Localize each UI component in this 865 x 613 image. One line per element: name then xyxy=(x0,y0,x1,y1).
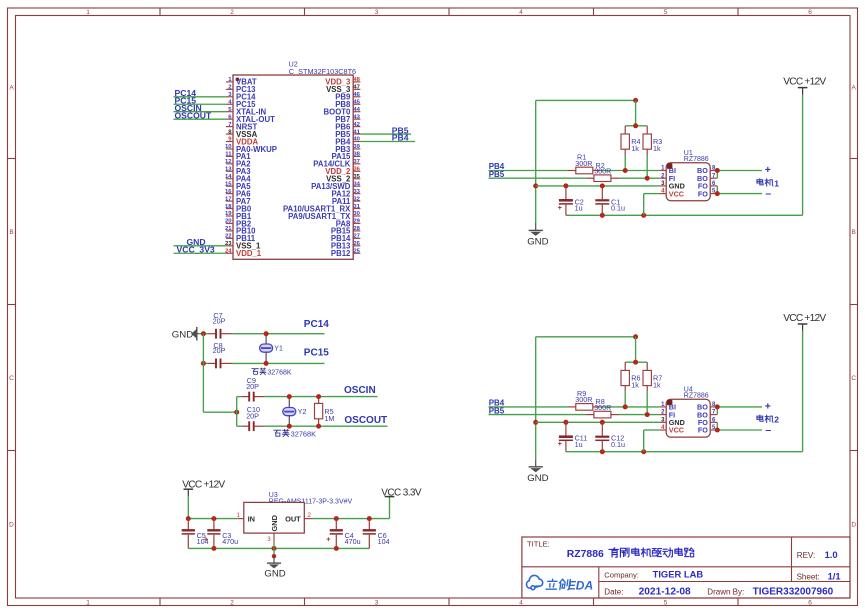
svg-text:4: 4 xyxy=(519,9,523,16)
wire OUT rail up to VCC 3.3V xyxy=(389,498,391,519)
wire bottom VCC rail xyxy=(566,451,803,453)
svg-text:6: 6 xyxy=(808,599,812,606)
svg-text:16: 16 xyxy=(225,189,232,195)
svg-text:38: 38 xyxy=(353,152,360,158)
capacitor C10 20P xyxy=(242,405,264,431)
svg-text:470u: 470u xyxy=(222,537,238,546)
node pullup bar xyxy=(633,123,638,128)
svg-text:TIGER LAB: TIGER LAB xyxy=(653,569,704,580)
svg-text:1u: 1u xyxy=(575,204,583,213)
svg-text:Sheet:: Sheet: xyxy=(797,572,820,581)
svg-text:34: 34 xyxy=(353,181,360,187)
U2 pin 18 PB0 xyxy=(225,204,252,214)
svg-text:PB5: PB5 xyxy=(489,406,505,415)
svg-text:18: 18 xyxy=(225,204,232,210)
wire VCC +12V down to bottom rail xyxy=(802,95,804,216)
svg-text:+: + xyxy=(326,535,331,544)
svg-text:19: 19 xyxy=(225,211,232,217)
svg-text:29: 29 xyxy=(353,219,360,225)
svg-text:41: 41 xyxy=(353,129,360,135)
svg-text:20P: 20P xyxy=(213,346,226,355)
wire net PB5 to R8 xyxy=(489,414,660,416)
wire GND vertical to lower crystal xyxy=(202,334,204,413)
U2 pin 10 PA0-WKUP xyxy=(225,144,277,154)
wire FO output to motor - xyxy=(717,422,762,430)
U1 pin 4 VCC xyxy=(659,189,684,199)
node Y2 bottom xyxy=(287,424,292,429)
wire net PC14 to U2 pin 3 xyxy=(174,96,226,98)
node FI pullup tap xyxy=(645,412,650,417)
U2 pin 30 PA9/USART1_TX xyxy=(288,211,361,221)
svg-text:35: 35 xyxy=(353,174,360,180)
U1 pin 3 GND xyxy=(659,181,684,191)
wire top rail xyxy=(536,336,636,338)
U2 pin 29 PA8 xyxy=(336,219,361,229)
U2 pin 35 VSS_2 xyxy=(326,174,361,184)
svg-text:22: 22 xyxy=(225,234,232,240)
svg-text:43: 43 xyxy=(353,114,360,120)
svg-text:1.0: 1.0 xyxy=(825,549,838,560)
U2 pin 41 PB5 xyxy=(335,129,360,139)
resistor R2 300R xyxy=(586,161,619,182)
svg-text:300R: 300R xyxy=(594,403,611,412)
U4 pin 6 FO xyxy=(698,417,717,427)
node top rail to pullups xyxy=(633,334,638,339)
svg-text:Y1: Y1 xyxy=(274,346,283,353)
svg-text:2: 2 xyxy=(774,415,779,425)
svg-text:B: B xyxy=(852,229,856,236)
wire net PC15 to U2 pin 4 xyxy=(174,103,226,105)
svg-text:–: – xyxy=(765,187,771,199)
U2 pin 48 VDD_3 xyxy=(325,77,360,87)
svg-text:A: A xyxy=(852,84,857,91)
wire left vertical to ground xyxy=(535,337,537,460)
node FI pullup tap xyxy=(645,176,650,181)
svg-text:1k: 1k xyxy=(653,144,661,153)
U3 pin 3 GND xyxy=(267,514,279,542)
svg-text:47: 47 xyxy=(353,85,360,91)
svg-text:3: 3 xyxy=(375,9,379,16)
svg-text:42: 42 xyxy=(353,122,360,128)
U1 pin 8 BO xyxy=(697,166,717,176)
svg-text:45: 45 xyxy=(353,99,360,105)
svg-text:20P: 20P xyxy=(246,411,259,420)
ground symbol GND (regulator) xyxy=(264,556,285,579)
svg-text:20P: 20P xyxy=(246,382,259,391)
capacitor C1 0.1u xyxy=(595,186,625,215)
svg-text:GND: GND xyxy=(270,514,279,531)
node Y1 bottom xyxy=(264,361,269,366)
U2 pin 39 PB3 xyxy=(335,144,360,154)
U2 pin 8 VSSA xyxy=(226,129,258,139)
svg-text:OSCIN: OSCIN xyxy=(344,385,376,396)
svg-text:44: 44 xyxy=(353,107,360,113)
ground symbol GND (motor 2) xyxy=(527,459,548,483)
U2 pin 46 PB9 xyxy=(335,92,360,102)
svg-text:32768K: 32768K xyxy=(267,369,291,376)
U1 pin 2 FI xyxy=(659,173,675,183)
wire left vertical to ground xyxy=(535,100,537,223)
U2 pin 1 VBAT xyxy=(226,77,257,87)
svg-text:D: D xyxy=(9,521,14,528)
node C4 tap xyxy=(334,516,339,521)
power flag VCC +12V (motor 2) xyxy=(783,313,826,331)
svg-text:1: 1 xyxy=(86,9,90,16)
svg-text:1k: 1k xyxy=(631,144,639,153)
wire FO output to motor - xyxy=(717,186,762,194)
svg-text:IN: IN xyxy=(248,514,255,523)
wire VCC rail up to U1 VCC pin xyxy=(644,194,660,216)
svg-text:39: 39 xyxy=(353,144,360,150)
U2 pin 20 PB2 xyxy=(225,219,252,229)
svg-text:27: 27 xyxy=(353,234,360,240)
EasyEDA logo cloud xyxy=(527,575,543,589)
svg-text:PB4: PB4 xyxy=(392,133,409,143)
svg-text:+: + xyxy=(558,439,563,448)
svg-text:32768K: 32768K xyxy=(291,429,317,438)
power flag VCC 3.3V xyxy=(381,487,422,498)
svg-text:GND: GND xyxy=(527,236,548,247)
svg-text:+: + xyxy=(558,203,563,212)
svg-text:VCC: VCC xyxy=(669,189,684,198)
svg-text:C: C xyxy=(9,375,14,382)
wire GND bottom rail (regulator) xyxy=(188,547,369,549)
U2 pin 38 PA15 xyxy=(331,152,360,162)
node FO pins tied xyxy=(715,191,720,196)
svg-text:A: A xyxy=(9,84,14,91)
svg-text:300R: 300R xyxy=(575,159,592,168)
IC U2 C_STM32F103C8T6 body xyxy=(233,75,353,259)
svg-text:VCC +12V: VCC +12V xyxy=(783,77,826,88)
wire BO output to motor + xyxy=(717,407,762,415)
svg-text:31: 31 xyxy=(353,204,360,210)
power flag VCC +12V (regulator) xyxy=(182,479,225,496)
svg-text:30: 30 xyxy=(353,211,360,217)
wire bracket vertical (OSCIN/OSCOUT) xyxy=(236,397,238,427)
U2 pin 37 PA14/CLK xyxy=(313,159,360,169)
svg-text:24: 24 xyxy=(225,248,232,254)
node C bottom rail junctions xyxy=(600,213,646,218)
wire net VCC_3V3 to U2 pin 24 xyxy=(174,252,226,254)
wire GND stub below rail xyxy=(273,548,275,554)
svg-text:28: 28 xyxy=(353,226,360,232)
svg-text:1: 1 xyxy=(86,599,90,606)
capacitor C7 20P xyxy=(208,311,232,338)
node C6 tap xyxy=(367,516,372,521)
svg-text:FO: FO xyxy=(698,426,708,435)
wire U3 GND pin to rail xyxy=(273,543,275,549)
svg-text:46: 46 xyxy=(353,92,360,98)
ground symbol GND (motor 1) xyxy=(527,223,548,247)
wire net OSCIN row (crystal) xyxy=(237,396,378,398)
svg-text:0.1u: 0.1u xyxy=(611,440,625,449)
svg-text:1: 1 xyxy=(237,512,241,519)
svg-text:VDD_1: VDD_1 xyxy=(236,249,262,258)
svg-text:GND: GND xyxy=(264,569,285,580)
svg-text:D: D xyxy=(851,521,856,528)
capacitor C5 104 xyxy=(182,519,209,549)
node BO pins tied xyxy=(715,168,720,173)
U2 pin 7 NRST xyxy=(226,122,258,132)
svg-text:6: 6 xyxy=(808,9,812,16)
U2 pin 43 PB7 xyxy=(335,114,360,124)
svg-text:300R: 300R xyxy=(594,167,611,176)
wire pullup bar xyxy=(625,337,647,362)
svg-text:OSCOUT: OSCOUT xyxy=(175,111,213,121)
crystal Y2 xyxy=(283,397,296,427)
capacitor C3 470u xyxy=(204,519,239,549)
capacitor C12 0.1u xyxy=(595,422,625,451)
svg-text:0.1u: 0.1u xyxy=(611,204,625,213)
svg-text:40: 40 xyxy=(353,137,360,143)
resistor R3 1k xyxy=(643,126,662,178)
U1 pin 1 BI xyxy=(659,166,676,176)
wire net PB5 to R2 xyxy=(489,177,660,179)
svg-text:RZ7886: RZ7886 xyxy=(567,549,604,560)
U2 pin 24 VDD_1 xyxy=(225,248,262,258)
svg-text:10: 10 xyxy=(225,144,232,150)
U2 pin 17 PA7 xyxy=(225,196,251,206)
U2 pin 25 PB12 xyxy=(331,248,361,258)
resistor R4 1k xyxy=(621,126,641,171)
U1 pin 7 BO xyxy=(697,173,717,183)
wire net PB4 from U2 pin 40 xyxy=(360,141,415,143)
U2 pin 15 PA5 xyxy=(225,181,251,191)
U4 pin 7 BO xyxy=(697,410,717,420)
Y2 value label quartz 32768K xyxy=(274,429,289,436)
U4 pin 3 GND xyxy=(659,417,684,427)
node GND symbol tap xyxy=(272,554,276,558)
wire net GND to U2 pin 23 xyxy=(174,245,226,247)
wire net OSCOUT to U2 pin 6 xyxy=(174,118,226,120)
node BI pullup tap xyxy=(623,404,628,409)
U2 pin 40 PB4 xyxy=(335,137,360,147)
IC U1 RZ7886 body xyxy=(666,163,710,201)
capacitor C4 470u xyxy=(326,519,361,549)
svg-text:1M: 1M xyxy=(324,414,334,423)
svg-text:PC14: PC14 xyxy=(304,319,329,330)
wire top rail xyxy=(536,99,636,101)
U2 pin 22 PB11 xyxy=(225,234,256,244)
wire GND line to U4 pin 3 xyxy=(536,421,660,423)
svg-text:Company:: Company: xyxy=(604,570,639,579)
svg-text:FO: FO xyxy=(698,189,708,198)
U2 pin 26 PB13 xyxy=(331,241,361,251)
svg-text:REV:: REV: xyxy=(797,551,815,560)
svg-text:1/1: 1/1 xyxy=(828,571,841,582)
U2 pin 11 PA1 xyxy=(225,152,251,162)
wire VCC +12V down to bottom rail xyxy=(802,331,804,452)
wire BO output to motor + xyxy=(717,171,762,179)
U4 pin 5 FO xyxy=(698,425,717,435)
crystal Y1 xyxy=(260,334,273,364)
node R5 bottom xyxy=(316,424,321,429)
node GND pin tap xyxy=(272,546,277,551)
svg-text:2: 2 xyxy=(308,512,312,519)
svg-text:TITLE:: TITLE: xyxy=(527,539,550,548)
U1 pin 5 FO xyxy=(698,189,717,199)
power flag VCC +12V (motor 1) xyxy=(783,77,826,95)
capacitor C2 1u xyxy=(558,186,584,215)
svg-text:1u: 1u xyxy=(575,440,583,449)
svg-text:33: 33 xyxy=(353,189,360,195)
svg-text:14: 14 xyxy=(225,174,232,180)
U2 pin 28 PB15 xyxy=(331,226,361,236)
svg-text:C: C xyxy=(851,375,856,382)
title block frame xyxy=(522,537,850,598)
U2 pin 5 XTAL-IN xyxy=(226,107,267,117)
svg-text:5: 5 xyxy=(664,599,668,606)
resistor R7 1k xyxy=(643,362,662,414)
resistor R1 300R xyxy=(568,152,601,173)
U2 pin 9 VDDA xyxy=(226,137,259,147)
svg-text:EDA: EDA xyxy=(568,578,593,592)
svg-text:300R: 300R xyxy=(575,395,592,404)
svg-text:–: – xyxy=(765,424,771,436)
svg-text:PC15: PC15 xyxy=(304,348,329,359)
U2 pin 2 PC13 xyxy=(226,85,256,95)
svg-text:B: B xyxy=(9,229,13,236)
svg-text:VCC_3V3: VCC_3V3 xyxy=(177,245,215,255)
U2 pin 16 PA6 xyxy=(225,189,251,199)
svg-text:25: 25 xyxy=(353,248,360,254)
svg-text:Date:: Date: xyxy=(604,587,623,596)
svg-text:15: 15 xyxy=(225,181,232,187)
node C4 bottom xyxy=(334,546,339,551)
label motor 1 (dianji1) xyxy=(757,179,773,187)
svg-text:37: 37 xyxy=(353,159,360,165)
svg-text:VCC: VCC xyxy=(669,426,684,435)
svg-text:1k: 1k xyxy=(653,380,661,389)
svg-text:20P: 20P xyxy=(213,317,226,326)
wire net OSCIN to U2 pin 5 xyxy=(174,111,226,113)
resistor R6 1k xyxy=(621,362,641,407)
svg-text:48: 48 xyxy=(353,77,360,83)
node decoupling taps on GND line xyxy=(563,420,604,425)
svg-text:RZ7886: RZ7886 xyxy=(684,156,709,163)
svg-text:5: 5 xyxy=(664,9,668,16)
U2 pin 13 PA3 xyxy=(225,167,251,177)
svg-text:36: 36 xyxy=(353,167,360,173)
node top rail to pullups xyxy=(633,98,638,103)
node Y1 top xyxy=(264,331,269,336)
svg-text:3: 3 xyxy=(375,599,379,606)
U4 pin 4 VCC xyxy=(659,425,684,435)
U2 pin 31 PA10/USART1_RX xyxy=(283,204,361,214)
svg-text:104: 104 xyxy=(378,537,390,546)
node GND branch on PC15 row xyxy=(201,361,206,366)
U2 pin 6 XTAL-OUT xyxy=(226,114,275,124)
svg-text:1: 1 xyxy=(774,178,779,188)
U2 pin 44 BOOT0 xyxy=(324,107,361,117)
svg-text:TIGER332007960: TIGER332007960 xyxy=(753,587,834,598)
svg-text:+: + xyxy=(765,400,771,412)
wire bottom VCC rail xyxy=(566,214,803,216)
svg-text:Drawn By:: Drawn By: xyxy=(707,587,744,596)
wire net PB4 to R1 xyxy=(489,170,660,172)
svg-text:2: 2 xyxy=(230,599,234,606)
U1 pin 6 FO xyxy=(698,181,717,191)
U2 pin 32 PA11 xyxy=(332,196,361,206)
IC U3 AMS1117 body xyxy=(244,502,304,533)
node BO pins tied xyxy=(715,404,720,409)
U4 pin 1 BI xyxy=(659,402,676,412)
U2 pin 14 PA4 xyxy=(225,174,251,184)
U2 pin 3 PC14 xyxy=(226,92,256,102)
svg-text:4: 4 xyxy=(519,599,523,606)
EasyEDA logo wordmark (lichuang EDA) xyxy=(546,579,570,590)
svg-text:21: 21 xyxy=(225,226,232,232)
resistor R8 300R xyxy=(586,397,619,418)
svg-text:+: + xyxy=(204,535,209,544)
node GND branch on PC14 row xyxy=(201,331,206,336)
U2 pin 21 PB10 xyxy=(225,226,256,236)
ground symbol GND (crystal section, rotated) xyxy=(172,327,199,341)
U2 pin 45 PB8 xyxy=(335,99,360,109)
svg-text:GND: GND xyxy=(172,329,193,340)
node GND line tap xyxy=(533,420,538,425)
wire net PC14 row (crystal) xyxy=(199,333,325,335)
svg-text:RZ7886: RZ7886 xyxy=(684,392,709,399)
node C5 tap xyxy=(186,516,191,521)
node GND line tap xyxy=(533,183,538,188)
label motor 2 (dianji2) xyxy=(757,415,773,423)
svg-text:470u: 470u xyxy=(345,537,361,546)
wire GND branch to bracket xyxy=(203,411,236,413)
U2 pin 4 PC15 xyxy=(226,99,256,109)
node C3 tap xyxy=(211,516,216,521)
wire OUT rail xyxy=(312,518,389,520)
node bracket junction xyxy=(234,410,239,415)
node BI pullup tap xyxy=(623,168,628,173)
node FO pins tied xyxy=(715,428,720,433)
wire net PC15 row (crystal) xyxy=(203,362,324,364)
U2 pin 34 PA13/SWD xyxy=(311,181,361,191)
U4 pin 2 FI xyxy=(659,410,675,420)
node C bottom rail junctions xyxy=(600,449,646,454)
wire IN rail xyxy=(188,518,237,520)
U3 pin 2 OUT xyxy=(285,512,312,523)
svg-text:2: 2 xyxy=(230,9,234,16)
svg-text:Y2: Y2 xyxy=(298,409,307,416)
svg-text:13: 13 xyxy=(225,167,232,173)
Y1 value label quartz 32768K xyxy=(252,368,266,375)
capacitor C9 20P xyxy=(242,376,264,402)
U2 pin 42 PB6 xyxy=(335,122,360,132)
svg-text:PB12: PB12 xyxy=(331,249,351,258)
svg-text:20: 20 xyxy=(225,219,232,225)
wire net PB5 from U2 pin 41 xyxy=(360,133,411,135)
capacitor C6 104 xyxy=(363,519,390,549)
svg-text:11: 11 xyxy=(225,152,232,158)
U2 pin 27 PB14 xyxy=(331,234,361,244)
node R5 top xyxy=(316,394,321,399)
svg-text:1k: 1k xyxy=(631,380,639,389)
wire pullup bar xyxy=(625,100,647,125)
svg-text:+: + xyxy=(765,164,771,176)
node pullup bar xyxy=(633,360,638,365)
wire VCC +12V to IN rail xyxy=(187,496,189,518)
svg-text:VCC +12V: VCC +12V xyxy=(783,313,826,324)
svg-text:23: 23 xyxy=(225,241,232,247)
svg-text:GND: GND xyxy=(527,473,548,484)
capacitor C8 20P xyxy=(208,341,232,368)
resistor R9 300R xyxy=(568,389,601,410)
U2 pin 19 PB1 xyxy=(225,211,252,221)
U3 pin 1 IN xyxy=(237,512,255,523)
U4 pin 8 BO xyxy=(697,402,717,412)
U2 pin 47 VSS_3 xyxy=(326,85,361,95)
